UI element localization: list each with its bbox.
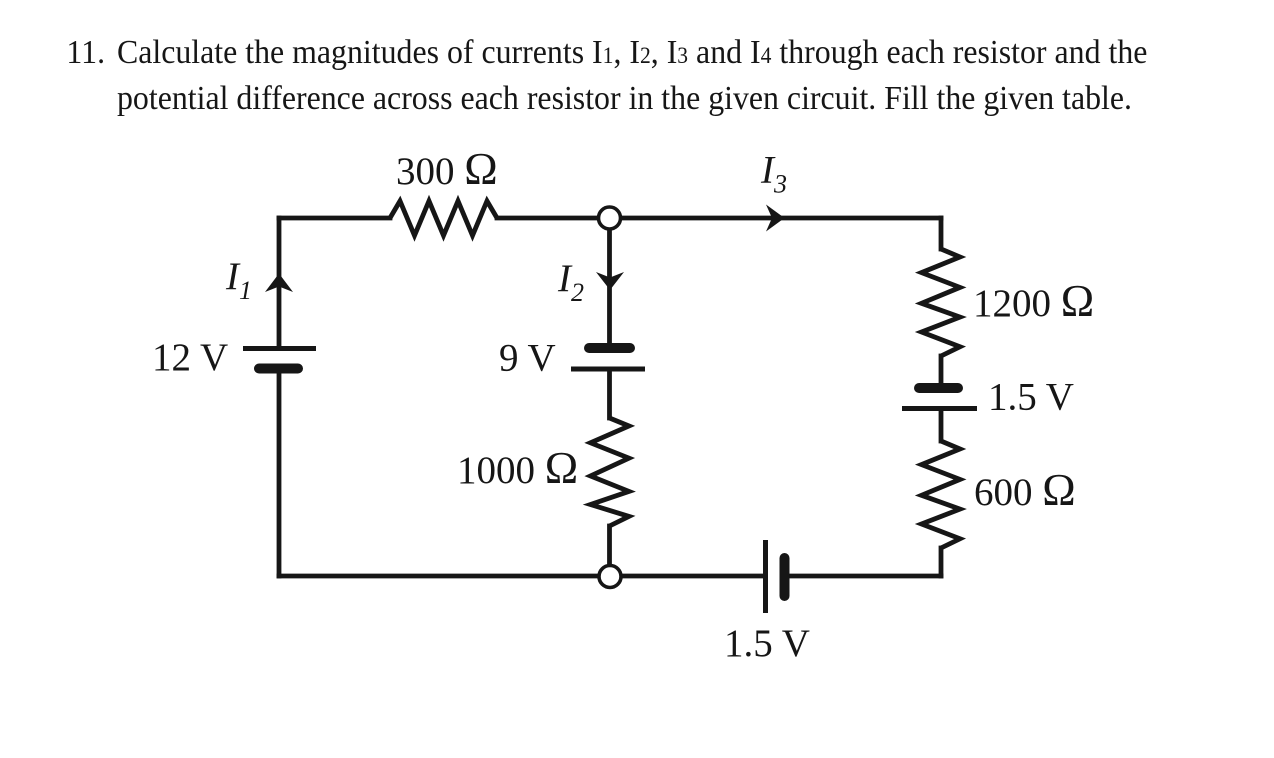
svg-text:9 V: 9 V	[499, 337, 556, 380]
svg-text:1000 Ω: 1000 Ω	[457, 443, 578, 493]
svg-text:1.5 V: 1.5 V	[988, 376, 1074, 419]
svg-text:I1: I1	[225, 255, 252, 305]
svg-text:I3: I3	[760, 149, 787, 199]
svg-text:1200 Ω: 1200 Ω	[973, 276, 1094, 326]
svg-text:12 V: 12 V	[152, 336, 228, 379]
svg-text:1.5 V: 1.5 V	[724, 622, 810, 665]
svg-text:300 Ω: 300 Ω	[396, 144, 498, 194]
svg-text:600 Ω: 600 Ω	[974, 465, 1076, 515]
svg-text:I2: I2	[557, 257, 584, 307]
